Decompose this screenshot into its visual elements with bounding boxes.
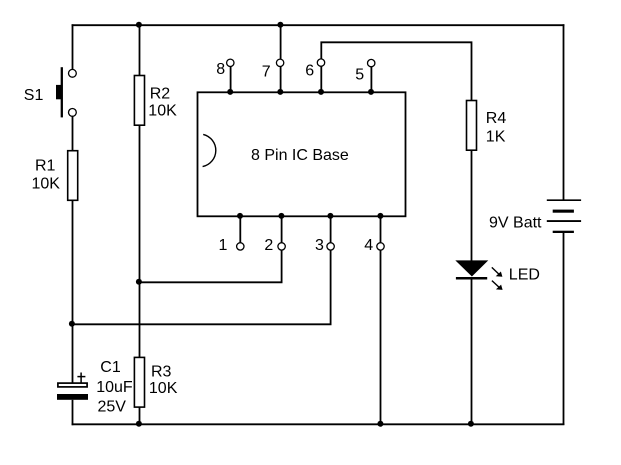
node pin 4 on IC xyxy=(377,213,383,219)
svg-text:25V: 25V xyxy=(98,399,127,416)
wire bottom rail xyxy=(72,423,565,425)
capacitor C1 xyxy=(57,373,88,400)
node pin 3 on IC xyxy=(327,213,333,219)
pin 4 terminal circle xyxy=(377,243,384,250)
node junction bottom rail / pin 4 xyxy=(377,421,383,427)
node pin 8 on IC xyxy=(227,89,233,95)
svg-text:R4: R4 xyxy=(486,110,507,127)
svg-text:5: 5 xyxy=(355,67,364,84)
svg-text:R2: R2 xyxy=(150,86,171,103)
pin 5 terminal circle xyxy=(368,59,375,66)
pin 7 wire from top rail xyxy=(280,24,282,59)
svg-text:LED: LED xyxy=(509,266,540,283)
wire R4 to LED xyxy=(471,150,473,262)
node junction left wire / pin 3 net xyxy=(69,321,75,327)
node pin 1 on IC xyxy=(237,213,243,219)
battery B1 positive plate xyxy=(547,199,581,201)
resistor R4 xyxy=(467,101,477,151)
svg-text:8: 8 xyxy=(216,61,225,78)
battery B1 inner positive plate xyxy=(547,220,581,222)
battery B1 negative plate xyxy=(553,231,574,233)
wire top rail xyxy=(72,24,565,26)
wire left branch from top rail to S1 xyxy=(72,24,74,69)
pin 6 stub wire xyxy=(320,67,322,93)
node pin 6 on IC xyxy=(318,89,324,95)
IC socket U1 body xyxy=(198,92,406,216)
svg-text:3: 3 xyxy=(315,237,324,254)
wire R2 to R3 xyxy=(139,125,141,358)
wire C1 to bottom rail xyxy=(72,400,74,425)
svg-text:8 Pin IC Base: 8 Pin IC Base xyxy=(251,147,349,164)
battery B1 inner negative plate xyxy=(553,210,574,213)
pin 8 terminal circle xyxy=(227,59,234,66)
LED D1 xyxy=(456,261,503,290)
wire top rail to battery xyxy=(563,24,565,200)
svg-text:R1: R1 xyxy=(35,158,56,175)
svg-text:R3: R3 xyxy=(151,364,172,381)
wire battery to bottom rail xyxy=(563,232,565,425)
pin 8 stub wire xyxy=(230,67,232,93)
node junction top rail / R2 xyxy=(136,22,142,28)
pin 7 stub wire xyxy=(280,67,282,93)
svg-text:10K: 10K xyxy=(148,103,177,120)
pin 7 terminal circle xyxy=(276,59,283,66)
pin 3 terminal circle xyxy=(327,243,334,250)
wire R3 to bottom rail xyxy=(139,407,141,425)
svg-text:9V Batt: 9V Batt xyxy=(489,214,542,231)
wire LED to bottom rail xyxy=(471,279,473,426)
svg-text:7: 7 xyxy=(262,63,271,80)
svg-text:6: 6 xyxy=(305,63,314,80)
node junction bottom rail / LED xyxy=(468,421,474,427)
node pin 5 on IC xyxy=(368,89,374,95)
node pin 7 on IC xyxy=(277,89,283,95)
pin 1 stub wire xyxy=(239,216,241,243)
pin 2 stub wire xyxy=(281,216,283,243)
wire pin 6 up and over to R4 xyxy=(321,42,471,101)
node junction R2R3 wire / pin 2 net xyxy=(136,279,142,285)
svg-text:C1: C1 xyxy=(100,359,121,376)
svg-text:S1: S1 xyxy=(24,87,44,104)
node junction bottom rail / R3 xyxy=(136,421,142,427)
resistor R1 xyxy=(68,151,78,201)
node junction top rail / pin 7 xyxy=(277,22,283,28)
switch S1 xyxy=(56,67,76,117)
wire R2 branch from top rail xyxy=(139,24,141,76)
svg-text:1: 1 xyxy=(219,237,228,254)
pin 3 stub wire xyxy=(330,216,332,243)
svg-text:10K: 10K xyxy=(32,175,61,192)
wire pin 2 net to R2R3 junction xyxy=(139,250,282,283)
IC notch xyxy=(203,134,216,166)
node pin 2 on IC xyxy=(278,213,284,219)
wire S1 to R1 xyxy=(72,117,74,152)
pin 2 terminal circle xyxy=(278,243,285,250)
wire pin 3 net to left branch xyxy=(72,250,331,325)
svg-text:10uF: 10uF xyxy=(96,379,133,396)
svg-text:2: 2 xyxy=(264,237,273,254)
pin 6 terminal circle xyxy=(317,59,324,66)
wire R1 to C1 xyxy=(72,200,74,383)
resistor R3 xyxy=(134,357,144,407)
svg-text:4: 4 xyxy=(364,237,373,254)
wire pin 4 to bottom rail xyxy=(380,250,382,425)
svg-text:10K: 10K xyxy=(149,380,178,397)
pin 4 stub wire xyxy=(380,216,382,243)
svg-text:1K: 1K xyxy=(486,129,506,146)
pin 5 stub wire xyxy=(370,67,372,93)
resistor R2 xyxy=(134,76,144,126)
pin 1 terminal circle xyxy=(237,243,244,250)
